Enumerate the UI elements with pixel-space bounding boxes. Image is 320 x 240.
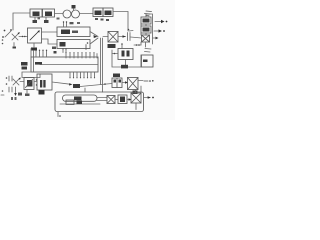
wire to LO drop	[113, 12, 128, 32]
dash below	[13, 43, 15, 47]
wires to X3	[97, 98, 107, 101]
wire with series gap	[19, 36, 28, 38]
inner row1	[63, 95, 98, 101]
output arrow bottom right	[144, 97, 148, 99]
wire into chain bottom with dots	[134, 44, 141, 46]
label above D1	[113, 74, 120, 78]
labels below T3 T4	[95, 18, 98, 20]
scribble above R4	[145, 49, 152, 53]
ground below B1	[26, 90, 28, 94]
block T3	[93, 8, 103, 17]
feedback loop	[112, 50, 142, 67]
left edge dots	[2, 90, 4, 92]
mixer MX1	[108, 32, 118, 43]
converging wires	[90, 32, 98, 45]
X box 3	[107, 96, 115, 104]
wire L1 to M1	[42, 31, 58, 33]
big bottom box	[55, 92, 144, 112]
block T1	[30, 9, 42, 17]
cap dashes left lower	[9, 76, 12, 81]
block R4	[141, 55, 153, 67]
wire	[80, 13, 94, 15]
label below B2	[39, 90, 45, 95]
wire	[115, 99, 118, 101]
meter G2 circle	[72, 10, 80, 18]
arrow down	[15, 87, 17, 94]
block pair D1	[112, 78, 122, 88]
label lead 12	[45, 17, 47, 21]
block T2	[43, 9, 55, 17]
wire	[55, 13, 64, 15]
scribble labels top right	[145, 11, 152, 16]
wire into B1	[20, 81, 24, 83]
U1 left labels	[21, 62, 28, 66]
pins top row A	[36, 51, 47, 57]
wire D1 to MX2	[122, 82, 128, 84]
chain connecting wires	[145, 24, 148, 47]
block T4	[103, 8, 113, 17]
X box 4	[131, 93, 141, 103]
block B2	[37, 74, 52, 90]
wide block U1 outer	[31, 57, 98, 72]
tab box below U1	[22, 72, 40, 78]
attenuator box L1	[28, 28, 42, 43]
wire B1-B2	[34, 81, 37, 83]
LO node marks	[128, 29, 130, 31]
wire to R3	[131, 37, 142, 38]
coupling dashes	[128, 33, 131, 41]
block B1	[24, 78, 34, 90]
right chain detector R3	[142, 35, 150, 42]
bottom left small label	[11, 97, 13, 100]
output arrow 2	[154, 30, 159, 32]
MX2 output arrow	[138, 80, 143, 82]
output arrow 1	[155, 21, 161, 23]
X adjust lower	[13, 78, 20, 85]
pins above M1	[64, 23, 67, 28]
output arrow 3	[153, 37, 156, 39]
wire above U1 left edge	[31, 49, 34, 58]
label below M2	[52, 47, 56, 50]
pins bottom row	[70, 72, 95, 77]
wire with arrow	[127, 99, 130, 101]
right chain block R2	[141, 26, 151, 33]
U1 inner line	[40, 64, 98, 66]
wire to mixer MX1	[103, 36, 108, 38]
tick below big box	[57, 112, 59, 117]
mixer MX2	[128, 78, 139, 90]
label blob above G2	[72, 5, 76, 9]
S1 input wire	[112, 53, 118, 55]
variable arrow X	[12, 33, 19, 40]
pins below M2	[63, 50, 66, 53]
vertical rail double	[101, 38, 103, 92]
wire left input	[13, 13, 30, 30]
ground lead L1	[33, 43, 35, 47]
right chain block R1	[141, 17, 151, 24]
pins top row B	[66, 54, 97, 59]
inner row2	[66, 100, 74, 105]
wire L1 to M2	[42, 39, 58, 44]
label lead 10	[34, 17, 36, 21]
long wire B2 to cluster	[52, 82, 71, 84]
wire MX1 out with arrow	[118, 36, 126, 38]
dashes below	[9, 87, 12, 92]
right rail	[146, 14, 153, 44]
small blob	[54, 51, 57, 54]
block F1	[118, 95, 127, 104]
tick above S1	[121, 45, 123, 49]
block S1	[118, 49, 133, 60]
meter G1 circle	[63, 10, 71, 18]
amplifier M2	[57, 40, 90, 49]
source symbol left	[5, 31, 11, 37]
terminal dots far left	[2, 39, 4, 41]
amplifier M1	[57, 27, 90, 37]
tie down right	[140, 86, 142, 94]
